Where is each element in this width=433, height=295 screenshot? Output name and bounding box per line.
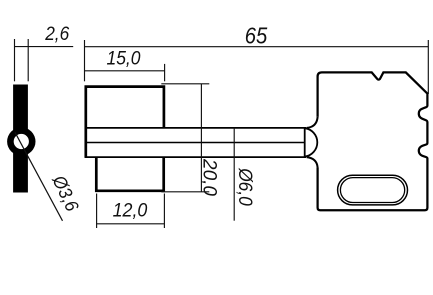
- dimension 2,6 line: [15, 46, 74, 48]
- oval slot inner: [340, 178, 404, 203]
- oval slot outer: [338, 175, 408, 205]
- shaft bottom line: [85, 156, 307, 158]
- extension line right 15,0: [164, 64, 166, 81]
- dimension 12,0 line: [97, 223, 165, 225]
- svg-text:2,6: 2,6: [44, 24, 69, 45]
- dimension 20,0 line: [200, 84, 202, 192]
- upper bit rectangle: [86, 87, 164, 157]
- head lower fillet: [307, 157, 318, 167]
- svg-text:Ø6,0: Ø6,0: [234, 167, 255, 206]
- shaft tip arc: [305, 128, 318, 156]
- head upper fillet: [307, 117, 318, 128]
- svg-text:Ø3,6: Ø3,6: [48, 171, 83, 215]
- extension line left shared 65 and 15,0: [84, 40, 86, 81]
- dimension 15,0 line: [85, 70, 165, 72]
- svg-text:15,0: 15,0: [107, 49, 141, 70]
- shaft joint line: [304, 128, 306, 157]
- svg-text:20,0: 20,0: [198, 158, 219, 196]
- leader line Ø3,6: [15, 132, 63, 221]
- svg-text:65: 65: [245, 22, 268, 48]
- lower bit rectangle: [96, 157, 163, 191]
- dimension Ø6,0 line: [233, 128, 235, 221]
- dimension 12,0 extension lines: [97, 194, 165, 229]
- side view hole ring: [7, 127, 35, 155]
- svg-text:12,0: 12,0: [113, 200, 148, 221]
- extension line right 65: [427, 40, 429, 94]
- dimension 2,6 extension lines: [15, 39, 29, 81]
- key head outline: [318, 72, 428, 210]
- side view bar: [13, 85, 28, 193]
- dimension 65 line: [85, 46, 429, 48]
- shaft center line: [86, 142, 305, 144]
- shaft top line: [85, 127, 307, 129]
- dimension 20,0 extension lines: [161, 84, 209, 192]
